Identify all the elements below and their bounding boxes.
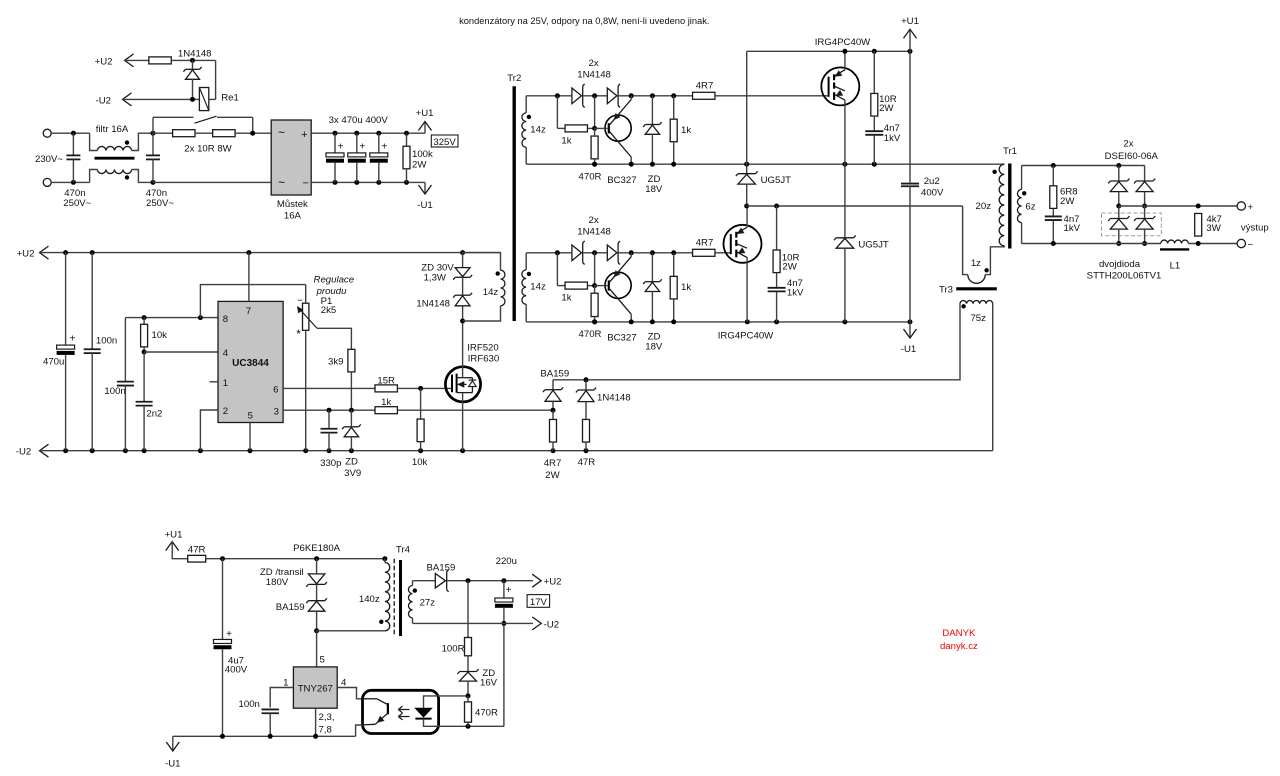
svg-text:+U2: +U2 [17, 248, 35, 259]
transformer Tr1 secondary 6z [1021, 166, 1023, 190]
svg-text:výstup: výstup [1241, 223, 1269, 234]
svg-text:1k: 1k [681, 125, 691, 136]
svg-text:ZD: ZD [345, 457, 358, 468]
svg-text:10k: 10k [152, 330, 168, 341]
capacitor 4n7 1kV (output snubber) [1052, 209, 1054, 216]
svg-text:2W: 2W [412, 159, 427, 170]
svg-text:+: + [1247, 202, 1253, 213]
transformer Tr2 secondary winding 14z [525, 96, 527, 113]
svg-text:470R: 470R [579, 172, 602, 183]
wire [1188, 243, 1237, 245]
resistor 10R 2W (upper snubber) [873, 51, 875, 94]
svg-text:UC3844: UC3844 [232, 358, 269, 369]
svg-text:220u: 220u [496, 556, 517, 567]
wire Tr3 left lead [553, 304, 960, 380]
svg-text:IRF630: IRF630 [468, 353, 499, 364]
svg-text:3: 3 [274, 406, 279, 417]
svg-text:+U2: +U2 [544, 577, 562, 588]
wire +U2 rail [40, 252, 501, 254]
svg-text:+: + [69, 333, 75, 344]
svg-text:+: + [301, 129, 307, 141]
resistor 470R [591, 136, 598, 159]
wire optocoupler emitter to ground [356, 725, 363, 736]
svg-text:3W: 3W [1206, 223, 1221, 234]
svg-text:180V: 180V [266, 577, 289, 588]
svg-text:+U2: +U2 [95, 57, 113, 68]
wire pin5 GND [249, 423, 251, 451]
svg-text:-U2: -U2 [96, 95, 111, 106]
capacitor 330p [328, 410, 330, 429]
svg-text:1k: 1k [381, 397, 391, 408]
voltage box 325V [431, 135, 458, 147]
svg-text:−: − [297, 295, 303, 306]
wire output - line [1022, 243, 1161, 245]
svg-text:100n: 100n [239, 699, 260, 710]
diode DSEI60-06A (b) [1144, 166, 1146, 181]
relay coil Re1 [199, 88, 208, 111]
svg-text:BA159: BA159 [276, 602, 305, 613]
resistor 3k9 [348, 349, 355, 372]
wire Vref to P1 [200, 285, 305, 318]
svg-text:1k: 1k [561, 136, 571, 147]
svg-text:1kV: 1kV [787, 287, 804, 298]
svg-text:2u2: 2u2 [924, 176, 940, 187]
resistor 47R (burden) [583, 419, 590, 442]
svg-text:140z: 140z [359, 594, 380, 605]
svg-text:+: + [359, 142, 365, 153]
svg-text:UG5JT: UG5JT [858, 239, 889, 250]
svg-text:+: + [226, 629, 232, 640]
svg-text:14z: 14z [530, 281, 546, 292]
svg-text:−: − [302, 178, 308, 190]
relay contact (inrush bypass switch) [152, 117, 154, 133]
wire [619, 252, 693, 254]
wire pin8 Vref rail [125, 317, 218, 319]
wire drive top [526, 252, 571, 254]
svg-text:4R7: 4R7 [696, 238, 714, 249]
zener ZD 3V9 [350, 410, 352, 426]
wire bottom IGBT emitter [746, 258, 748, 322]
svg-text:325V: 325V [433, 137, 456, 148]
svg-text:-U1: -U1 [165, 759, 180, 770]
wire diode junction to base node [594, 96, 596, 129]
svg-text:250V~: 250V~ [63, 198, 91, 209]
svg-text:Re1: Re1 [221, 92, 239, 103]
svg-text:18V: 18V [645, 341, 663, 352]
IGBT IRG4PC40W [821, 67, 859, 105]
net label -U2 (arrow right) [532, 617, 541, 630]
svg-text:330p: 330p [320, 458, 341, 469]
wire optocoupler LED anode [424, 696, 469, 708]
IC TNY267 [293, 667, 337, 708]
transistor BC327 (PNP) [605, 115, 631, 141]
transformer Tr4 winding 27z [412, 581, 414, 586]
resistor 10k (RT) [143, 318, 145, 325]
capacitor 470u (supply filter) [65, 253, 67, 345]
transformer Tr1 primary 20z [999, 164, 1004, 246]
svg-text:1kV: 1kV [884, 133, 901, 144]
wire [125, 59, 149, 61]
wire lower rail (-U1) [526, 321, 910, 323]
capacitor 2n2 (CT) [143, 352, 145, 402]
svg-text:2W: 2W [782, 262, 797, 273]
wire CS line [398, 409, 553, 411]
svg-text:BC327: BC327 [607, 175, 636, 186]
net label +U2 (arrow right) [532, 574, 541, 587]
svg-text:14z: 14z [483, 287, 499, 298]
svg-text:−: − [1247, 240, 1253, 251]
svg-text:2x: 2x [1123, 139, 1133, 150]
diode STTH200L06TV1 (b) [1144, 206, 1146, 218]
transformer Tr1 core [1008, 164, 1011, 249]
wire node B [747, 205, 963, 207]
resistor 10k (gate pulldown) [420, 388, 422, 419]
svg-text:470R: 470R [475, 708, 498, 719]
transformer Tr2 primary winding 14z [463, 253, 501, 271]
svg-text:BA159: BA159 [426, 562, 455, 573]
svg-text:6z: 6z [1025, 202, 1035, 213]
svg-text:*: * [296, 327, 301, 341]
wire drain [462, 321, 464, 378]
resistor 10R 8W (a) [153, 132, 173, 134]
svg-text:47R: 47R [578, 457, 596, 468]
svg-text:2W: 2W [545, 470, 560, 481]
svg-text:-U1: -U1 [417, 200, 432, 211]
svg-text:7,8: 7,8 [319, 724, 332, 735]
wire optocoupler LED cathode [424, 719, 505, 727]
wire -U1 rail (rectifier output) [311, 181, 425, 183]
svg-text:Tr3: Tr3 [939, 285, 953, 296]
svg-text:2,3,: 2,3, [319, 712, 335, 723]
wire pin4 RT/CT [144, 351, 218, 353]
svg-text:Tr2: Tr2 [507, 73, 521, 84]
svg-text:TNY267: TNY267 [298, 684, 333, 695]
svg-text:1N4148: 1N4148 [178, 49, 212, 60]
diode 1N4148 (b) [607, 88, 617, 104]
resistor 1k (base drive) [556, 253, 558, 286]
wire aux -U2 [413, 622, 534, 624]
wire [51, 181, 89, 183]
wire [583, 252, 607, 254]
resistor 47R (aux feed) [188, 555, 206, 562]
svg-text:DANYK: DANYK [942, 628, 976, 639]
zener ZD 16V (feedback) [467, 656, 469, 671]
wire pin2 to ground [200, 410, 218, 451]
svg-text:10k: 10k [412, 457, 428, 468]
svg-text:100n: 100n [96, 336, 117, 347]
svg-text:250V~: 250V~ [146, 198, 174, 209]
svg-text:100n: 100n [104, 386, 125, 397]
capacitor 470u 400V #1 [333, 131, 338, 136]
svg-text:-U2: -U2 [16, 447, 31, 458]
wire clamp to winding bottom [317, 630, 385, 632]
wire diode junction to base node [594, 253, 596, 286]
wire top IGBT emitter [844, 100, 846, 164]
svg-text:4: 4 [341, 677, 347, 688]
wire -U2 rail [40, 450, 993, 452]
net label -U1 (arrow down) [909, 322, 911, 338]
zener ZD 30V 1,3W (gate clamp) [462, 253, 464, 268]
svg-text:2x: 2x [589, 58, 599, 69]
svg-text:3k9: 3k9 [328, 357, 343, 368]
svg-text:BC327: BC327 [607, 332, 636, 343]
svg-text:1: 1 [223, 378, 228, 389]
svg-text:7: 7 [246, 306, 251, 317]
transformer Tr4 core [393, 559, 395, 635]
wire [51, 132, 89, 134]
wire TNY pins 2,3,7,8 [315, 708, 317, 736]
net label +U1 (arrow up) [424, 122, 426, 134]
wire to IGBT gate [715, 252, 731, 254]
net label +U1 (arrow up) [909, 29, 911, 51]
svg-text:filtr 16A: filtr 16A [96, 124, 129, 135]
svg-text:5: 5 [320, 655, 325, 666]
transformer Tr2 core [513, 86, 516, 321]
svg-text:4R7: 4R7 [544, 458, 562, 469]
diode DSEI60-06A (a) [1118, 166, 1120, 181]
resistor 10R 8W (b) [195, 132, 213, 134]
wire +U1 top rail [747, 50, 910, 52]
svg-text:470u: 470u [43, 357, 64, 368]
capacitor 470u 400V #3 [376, 131, 381, 136]
resistor 1k (base drive) [556, 96, 558, 129]
wire aux ground rail [173, 735, 356, 737]
svg-text:dvojdioda: dvojdioda [1099, 259, 1141, 270]
svg-text:6: 6 [273, 385, 278, 396]
svg-text:DSEI60-06A: DSEI60-06A [1105, 151, 1159, 162]
svg-text:+: + [381, 142, 387, 153]
bridge rectifier Mustek 16A [271, 120, 311, 195]
wire Tr1 primary to 1z winding [985, 246, 1004, 275]
capacitor 4u7 400V [222, 559, 224, 640]
capacitor 470u 400V #2 [354, 131, 359, 136]
svg-text:2x 10R 8W: 2x 10R 8W [184, 144, 232, 155]
svg-text:4: 4 [223, 348, 229, 359]
diode 1N4148 (gate clamp) [462, 277, 464, 294]
svg-text:15R: 15R [377, 375, 395, 386]
wire source [462, 393, 464, 451]
wire drive top [526, 95, 571, 97]
svg-text:Tr1: Tr1 [1003, 146, 1017, 157]
svg-text:17V: 17V [530, 597, 548, 608]
svg-text:2x: 2x [589, 215, 599, 226]
wire [619, 95, 693, 97]
svg-text:20z: 20z [976, 201, 992, 212]
wire P1 wiper to 3k9 [317, 328, 351, 349]
svg-text:-U2: -U2 [544, 619, 559, 630]
svg-text:47R: 47R [188, 544, 206, 555]
resistor 100R (feedback) [467, 581, 469, 638]
wire 1z to node B [963, 206, 968, 275]
diode 1N4148 (sense) [585, 380, 587, 390]
svg-text:IRG4PC40W: IRG4PC40W [815, 37, 871, 48]
wire [583, 95, 607, 97]
svg-text:2: 2 [223, 406, 228, 417]
svg-text:400V: 400V [225, 664, 248, 675]
potentiometer P1 2k5 (Regulace proudu) [305, 285, 307, 304]
svg-text:3x 470u 400V: 3x 470u 400V [329, 115, 389, 126]
svg-text:100R: 100R [442, 643, 465, 654]
wire [153, 181, 271, 183]
transformer Tr3 core [956, 287, 997, 290]
svg-text:1N4148: 1N4148 [416, 299, 450, 310]
svg-text:~: ~ [278, 126, 285, 140]
wire mid rail (half-bridge node A) [526, 163, 1004, 165]
svg-text:BA159: BA159 [540, 369, 569, 380]
zener ZD 18V [651, 253, 653, 281]
wire +U1 rail (rectifier output) [311, 132, 425, 134]
svg-text:Tr4: Tr4 [396, 544, 411, 555]
wire pin6 output [283, 387, 375, 389]
svg-text:75z: 75z [970, 313, 986, 324]
svg-text:STTH200L06TV1: STTH200L06TV1 [1087, 270, 1162, 281]
IGBT IRG4PC40W [724, 225, 762, 263]
wire [123, 98, 200, 100]
IC UC3844 [218, 301, 283, 422]
svg-text:~: ~ [278, 176, 285, 190]
svg-text:+U1: +U1 [165, 530, 183, 541]
resistor 470R [591, 293, 598, 316]
terminal N (mains input) [43, 178, 51, 186]
svg-text:230V~: 230V~ [35, 154, 63, 165]
svg-text:-U1: -U1 [901, 344, 916, 355]
svg-text:2k5: 2k5 [321, 305, 336, 316]
svg-text:16V: 16V [480, 677, 498, 688]
wire [209, 98, 216, 100]
diode UG5JT (lower) [844, 164, 846, 237]
svg-text:27z: 27z [420, 598, 436, 609]
svg-text:UG5JT: UG5JT [761, 175, 792, 186]
svg-text:470R: 470R [579, 329, 602, 340]
svg-text:400V: 400V [921, 187, 944, 198]
diode UG5JT (upper) [746, 51, 748, 173]
resistor 10R 2W (lower snubber) [776, 206, 778, 250]
svg-text:proudu: proudu [316, 286, 348, 297]
svg-text:3V9: 3V9 [344, 468, 361, 479]
net label -U1 (aux, arrow down) [172, 736, 174, 751]
diode 1N4148 (a) [572, 245, 582, 261]
svg-text:2W: 2W [879, 103, 894, 114]
capacitor 470n 250V~ (after choke) [151, 131, 156, 136]
resistor (relay series) [149, 57, 171, 64]
MOSFET IRF520/IRF630 Q1 [445, 367, 480, 402]
wire pin1 stub [210, 381, 218, 383]
svg-text:4R7: 4R7 [696, 81, 714, 92]
svg-text:2W: 2W [1060, 196, 1075, 207]
terminal L (mains input) [43, 129, 51, 137]
net label -U1 (arrow down) [424, 182, 426, 194]
resistor 4R7 2W (burden) [552, 410, 554, 419]
diode 1N4148 (a) [572, 88, 582, 104]
svg-text:1z: 1z [971, 258, 981, 269]
svg-text:+U1: +U1 [416, 108, 434, 119]
wire aux +U2 [447, 580, 533, 582]
capacitor 100n (supply decoupling) [91, 253, 93, 350]
wire [171, 59, 215, 61]
resistor 1k (CS filter) [375, 407, 397, 414]
zener ZD 18V [651, 96, 653, 124]
transformer Tr4 winding 140z [384, 559, 386, 563]
svg-text:14z: 14z [530, 124, 546, 135]
resistor 100k 2W (bleeder) [404, 131, 409, 136]
wire output top [1022, 165, 1145, 167]
resistor 1k (gate-emitter) [673, 96, 675, 119]
transformer Tr3 secondary 75z [960, 301, 993, 304]
terminal + (vystup) [1237, 202, 1245, 210]
svg-text:1N4148: 1N4148 [577, 227, 611, 238]
dashed box dvojdioda [1102, 213, 1162, 236]
svg-text:Můstek: Můstek [277, 199, 308, 210]
wire pin7 Vcc [248, 253, 250, 302]
svg-text:+: + [506, 585, 512, 596]
svg-text:IRG4PC40W: IRG4PC40W [718, 331, 774, 342]
svg-text:danyk.cz: danyk.cz [940, 641, 978, 652]
wire to IGBT gate [715, 95, 829, 97]
svg-text:18V: 18V [645, 184, 663, 195]
diode BA159 (clamp) [316, 584, 318, 600]
wire Tr3 right lead [992, 304, 994, 451]
capacitor 100n (bypass) [261, 708, 279, 710]
optocoupler [363, 690, 439, 733]
svg-text:IRF520: IRF520 [467, 342, 498, 353]
svg-text:1k: 1k [561, 293, 571, 304]
resistor 4R7 (gate) [693, 249, 715, 256]
svg-text:+U1: +U1 [901, 16, 919, 27]
svg-text:8: 8 [223, 314, 228, 325]
capacitor 4n7 1kV (upper snubber) [873, 116, 875, 131]
svg-text:1N4148: 1N4148 [597, 392, 631, 403]
resistor 4k7 3W [1195, 213, 1202, 236]
winding 1z (Tr3 primary) [968, 275, 985, 284]
resistor 1k (gate-emitter) [673, 253, 675, 276]
svg-text:5: 5 [248, 410, 253, 421]
voltage box 17V [527, 595, 550, 608]
svg-text:2n2: 2n2 [146, 409, 162, 420]
resistor 6R8 2W (output snubber) [1052, 166, 1054, 186]
svg-text:Regulace: Regulace [314, 275, 355, 286]
svg-text:1,3W: 1,3W [424, 273, 447, 284]
resistor 470R (LED bias) [467, 696, 469, 702]
terminal - (vystup) [1237, 239, 1245, 247]
svg-text:1: 1 [283, 677, 288, 688]
svg-text:L1: L1 [1170, 261, 1181, 272]
capacitor 4n7 1kV (lower snubber) [776, 273, 778, 288]
transil ZD 180V (clamp) [316, 559, 318, 574]
diode BA159 (sense) [552, 380, 554, 389]
wire pin3 current sense [283, 409, 375, 411]
diode 1N4148 (b) [607, 245, 617, 261]
resistor 15R (gate drive) [375, 385, 397, 392]
resistor 4R7 (gate) [693, 92, 715, 99]
wire aux top [206, 558, 385, 560]
capacitor 100n (Vref decoupling) [124, 318, 126, 382]
wire top IGBT collector [844, 51, 846, 70]
svg-text:kondenzátory na 25V, odpory na: kondenzátory na 25V, odpory na 0,8W, nen… [459, 16, 709, 26]
svg-text:1k: 1k [681, 282, 691, 293]
svg-text:16A: 16A [284, 211, 302, 222]
wire bottom IGBT collector [746, 206, 748, 227]
diode STTH200L06TV1 (a) [1118, 206, 1120, 218]
wire TNY pin5 [316, 631, 318, 667]
capacitor 2u2 400V (DC blocking) [909, 51, 911, 182]
transformer Tr2 secondary winding 14z [525, 253, 527, 270]
inductor L1 [1161, 240, 1189, 243]
transistor BC327 (PNP) [605, 272, 631, 298]
svg-text:+: + [338, 142, 344, 153]
wire output + line [1119, 205, 1237, 207]
svg-text:P6KE180A: P6KE180A [293, 543, 341, 554]
wire to MOSFET gate [398, 387, 452, 389]
